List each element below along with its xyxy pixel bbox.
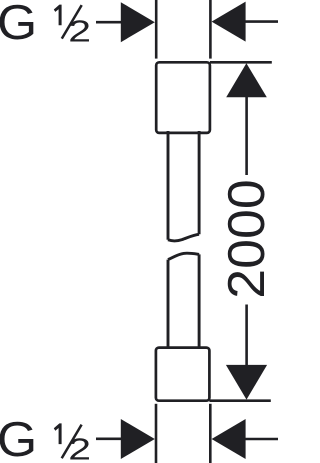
hose upper break curve <box>168 234 199 241</box>
svg-text:2: 2 <box>68 14 91 49</box>
hose lower break curve <box>168 253 199 259</box>
connector nut bottom <box>156 348 210 401</box>
extension line top <box>210 61 272 64</box>
arrow top-right <box>212 2 246 42</box>
fitting pipe line top-left <box>155 0 158 59</box>
svg-text:G: G <box>0 0 37 50</box>
label 1/2 slash top <box>62 5 82 39</box>
label 1/2 numerator bottom <box>54 423 62 444</box>
svg-text:2000: 2000 <box>217 179 275 299</box>
fitting pipe line bottom-left <box>155 404 158 463</box>
hose upper right line <box>198 131 201 234</box>
label 1/2 numerator top <box>54 5 62 26</box>
label 1/2 slash bottom <box>62 425 82 459</box>
fitting pipe line bottom-right <box>209 404 212 463</box>
hose lower left line <box>167 260 170 349</box>
wire callout line bottom-left <box>96 437 123 440</box>
dimension arrow up <box>226 63 267 97</box>
svg-text:2: 2 <box>68 431 91 463</box>
hose upper left line <box>167 131 170 240</box>
wire callout line bottom-right <box>245 438 278 441</box>
arrow bottom-right <box>212 419 246 459</box>
dimension line upper segment <box>245 96 248 175</box>
hose lower right line <box>198 254 201 348</box>
wire callout line top-left <box>96 21 123 24</box>
arrow bottom-left <box>121 419 155 459</box>
arrow top-left <box>121 2 155 42</box>
connector nut top <box>156 62 210 133</box>
wire callout line top-right <box>245 20 278 23</box>
fitting pipe line top-right <box>209 0 212 59</box>
dimension line lower segment <box>245 305 248 368</box>
extension line bottom <box>209 399 270 402</box>
svg-text:G: G <box>0 413 37 463</box>
dimension arrow down <box>226 365 267 400</box>
